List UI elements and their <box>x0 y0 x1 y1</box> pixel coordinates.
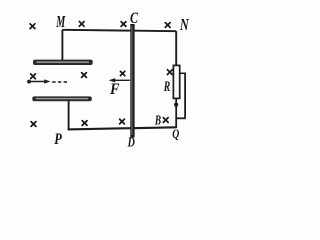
resistor R1 body <box>173 65 179 98</box>
stub bottom connecting <box>176 117 186 119</box>
field cross x4 top row <box>165 23 170 28</box>
wire resistor bottom to rail corner Q <box>175 98 177 128</box>
rod CD <box>130 24 134 138</box>
field cross x6 middle row <box>82 73 87 78</box>
stub resistor top-right <box>180 72 186 74</box>
wire top rail to top plate <box>61 30 63 61</box>
svg-text:Q: Q <box>172 126 179 141</box>
junction dot <box>174 103 178 107</box>
svg-text:P: P <box>54 131 63 148</box>
charged particle <box>27 80 31 84</box>
top rail MN <box>62 30 176 31</box>
bottom rail PQ <box>68 127 177 129</box>
dashed trajectory <box>52 81 67 83</box>
svg-text:M: M <box>56 12 66 31</box>
wire bottom plate to bottom rail <box>68 101 70 130</box>
field cross x8 middle row <box>167 70 172 75</box>
field cross x3 top row <box>121 22 126 27</box>
svg-text:B: B <box>154 113 161 128</box>
field cross x10 bottom row <box>82 121 87 126</box>
field cross x9 bottom row <box>31 122 36 127</box>
field cross x2 top row <box>79 22 84 27</box>
field cross x7 middle row <box>120 71 124 75</box>
top capacitor plate <box>33 60 93 65</box>
parallel wire right of resistor <box>184 73 186 119</box>
field cross x12 bottom row near B <box>163 118 168 123</box>
svg-text:C: C <box>130 10 138 27</box>
field cross x1 top row <box>30 24 35 29</box>
svg-text:F: F <box>109 81 120 98</box>
velocity arrow of particle <box>31 79 51 83</box>
svg-text:R: R <box>163 79 170 95</box>
field cross x11 bottom row <box>120 119 125 124</box>
force arrow F on rod <box>109 78 130 82</box>
svg-text:N: N <box>179 15 189 34</box>
bottom capacitor plate <box>32 96 92 101</box>
field cross x5 middle row <box>31 74 36 79</box>
wire N corner down to resistor top <box>175 31 177 66</box>
svg-text:D: D <box>127 136 135 151</box>
